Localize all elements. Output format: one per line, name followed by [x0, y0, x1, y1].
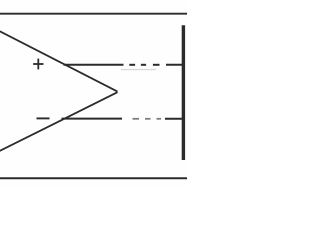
wire: upper dashed section: [129, 64, 159, 66]
op-amp U1 top edge (triangle, cut off at left): [0, 30, 118, 92]
wire: bottom horizontal bus: [0, 177, 188, 179]
wire: top horizontal bus: [0, 13, 188, 15]
faint scan artifact under upper wire: [121, 69, 156, 71]
wire: lower solid stub to plate: [165, 118, 184, 120]
wire: lower dashed section (faint): [133, 118, 162, 120]
wire: lower input stub (left of triangle edge): [37, 117, 50, 119]
wire: upper solid stub to plate: [166, 64, 184, 66]
wire: lower solid run: [62, 118, 123, 120]
electrode plate E1 (right vertical bar): [182, 25, 185, 160]
wire: upper output run (solid left part): [64, 64, 124, 66]
non-inverting input label +: [33, 59, 43, 70]
op-amp U1 bottom edge (triangle, cut off at left): [0, 92, 118, 152]
